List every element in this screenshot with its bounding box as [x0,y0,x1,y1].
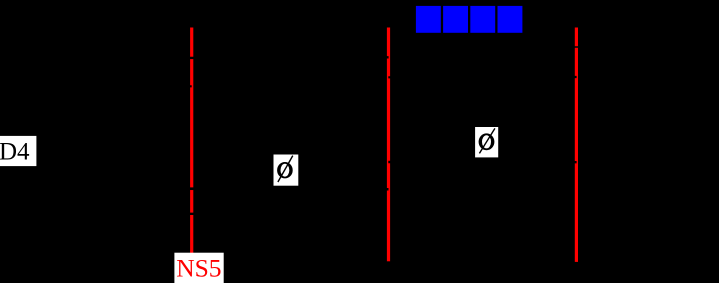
D6 square 2 (blue) [443,6,468,33]
D4 brane h (black line from D4 label toward NS5-1, y~151) [36,150,188,152]
D4 brane b (black line ending on NS5-1, y~86) [140,85,192,87]
NS5 brane 3 (red vertical line) [575,28,578,262]
label D4 (white box, black text) [0,136,36,166]
D4 brane e (black line NS5-2 to NS5-3, y~162) [388,161,576,164]
D6 square 1 (blue) [416,6,441,33]
NS5 brane 2 (red vertical line) [387,28,390,262]
D4 brane c (black line NS5-2 to NS5-3, y~77) [388,76,576,79]
NS5 brane 1 (red vertical line) [190,28,193,254]
D4 brane d (thin black line crossing NS5-3, y~47) [565,46,590,48]
D6 square 4 (blue) [498,6,523,33]
D6 square 3 (blue) [470,6,495,33]
D4 brane a (black line NS5-1 to NS5-2, y~57) [184,56,389,59]
svg-text:D4: D4 [0,138,30,165]
label emptyset 2 (white box, slashed-zero glyph) [475,127,498,157]
label NS5 (white box, red text) [174,253,223,283]
svg-text:NS5: NS5 [176,254,221,283]
D4 brane g (black line crossing NS5-1, y~214) [170,213,210,215]
label emptyset 1 (white box, slashed-zero glyph) [274,155,299,186]
D4 brane f (black line NS5-1 to NS5-2, y~189) [184,187,389,190]
